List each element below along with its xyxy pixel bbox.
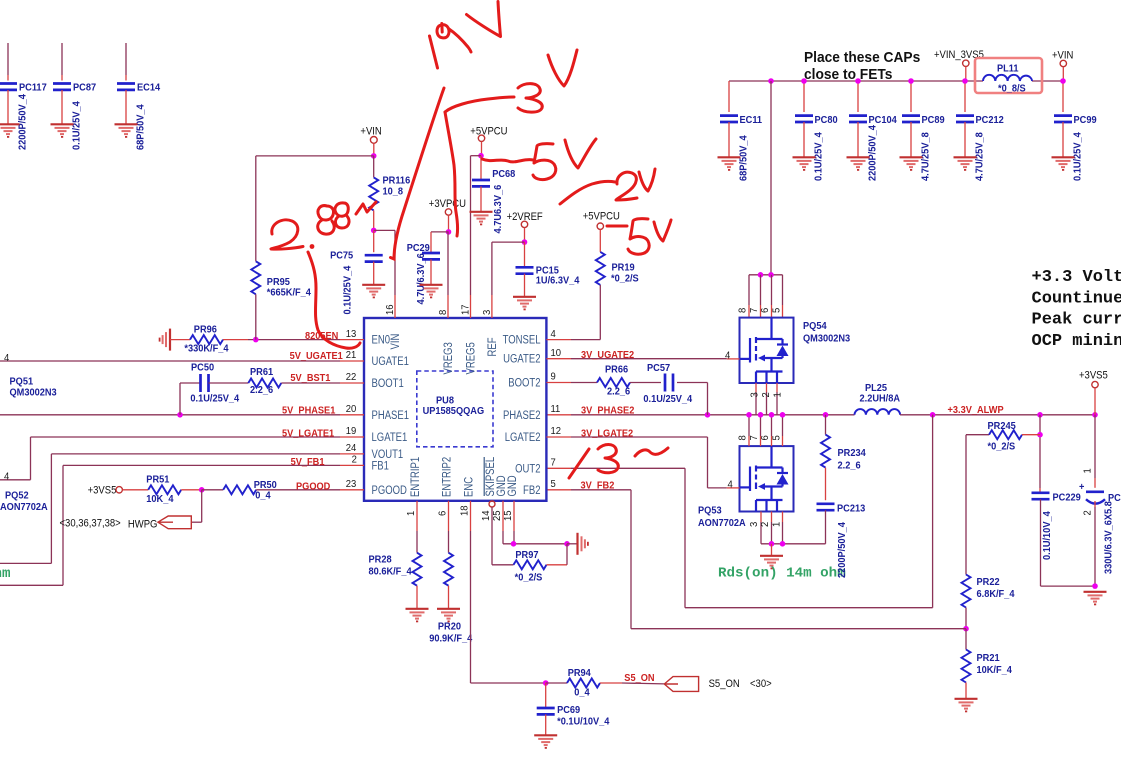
svg-text:VREG3: VREG3 bbox=[442, 342, 455, 374]
svg-text:0.1U/10V_4: 0.1U/10V_4 bbox=[1042, 511, 1054, 560]
svg-text:11: 11 bbox=[551, 404, 561, 415]
svg-text:QM3002N3: QM3002N3 bbox=[803, 333, 851, 345]
svg-text:4: 4 bbox=[4, 471, 10, 482]
capacitor PC104 bbox=[857, 81, 859, 112]
svg-text:5V_FB1: 5V_FB1 bbox=[291, 456, 325, 468]
svg-text:5: 5 bbox=[771, 307, 782, 313]
svg-text:4: 4 bbox=[551, 328, 557, 339]
svg-text:3V_LGATE2: 3V_LGATE2 bbox=[581, 428, 634, 440]
svg-text:OUT2: OUT2 bbox=[515, 462, 540, 475]
svg-text:6: 6 bbox=[760, 435, 771, 441]
svg-text:2: 2 bbox=[352, 454, 357, 465]
capacitor PC68 4.7U6.3V_6 bbox=[480, 156, 482, 180]
svg-text:10K/F_4: 10K/F_4 bbox=[977, 665, 1013, 677]
ground PC75 bbox=[362, 285, 385, 298]
wire ENC down to PR94 bbox=[470, 501, 472, 531]
svg-text:PR22: PR22 bbox=[977, 577, 1001, 589]
svg-text:*0_2/S: *0_2/S bbox=[611, 273, 639, 285]
svg-text:PHASE2: PHASE2 bbox=[503, 409, 541, 422]
ground right caps bbox=[1084, 592, 1107, 605]
svg-text:PR234: PR234 bbox=[838, 448, 867, 460]
svg-text:90.9K/F_4: 90.9K/F_4 bbox=[429, 633, 473, 645]
svg-text:22: 22 bbox=[346, 372, 357, 383]
handwritten annotation 19V bbox=[430, 2, 501, 69]
HWPG off-page connector bbox=[201, 490, 203, 522]
ground for EC14 bbox=[115, 124, 138, 137]
svg-text:Peak curr: Peak curr bbox=[1032, 311, 1121, 330]
PQ53 bottom pins 3 2 1 bbox=[760, 512, 762, 523]
capacitor PC75 0.1U/25V_4 bbox=[373, 230, 375, 252]
handwritten annotation 13~ at OUT2 bbox=[569, 445, 668, 479]
svg-text:1: 1 bbox=[771, 521, 782, 527]
resistor PR97 *0_2/S (SKIPSEL) bbox=[491, 507, 493, 565]
svg-text:<30>: <30> bbox=[750, 679, 772, 691]
svg-text:2: 2 bbox=[1082, 510, 1093, 515]
capacitor PC229 0.1U/10V_4 bbox=[1039, 488, 1041, 493]
svg-text:PC50: PC50 bbox=[191, 362, 215, 374]
svg-text:15: 15 bbox=[503, 510, 514, 521]
svg-text:10_8: 10_8 bbox=[383, 186, 404, 198]
svg-text:FB2: FB2 bbox=[523, 484, 540, 497]
svg-text:PR245: PR245 bbox=[988, 421, 1017, 433]
capacitor PC57 0.1U/25V_4 bbox=[665, 374, 673, 392]
svg-text:PC29: PC29 bbox=[407, 243, 431, 255]
svg-text:+3.3V_ALWP: +3.3V_ALWP bbox=[948, 405, 1005, 417]
ground PR28 bbox=[406, 609, 429, 622]
svg-text:FB1: FB1 bbox=[372, 459, 389, 472]
svg-text:ENC: ENC bbox=[462, 477, 475, 497]
junction on rail bbox=[769, 412, 775, 418]
svg-text:7: 7 bbox=[749, 308, 760, 313]
svg-text:7: 7 bbox=[551, 457, 556, 468]
svg-text:80.6K/F_4: 80.6K/F_4 bbox=[369, 566, 413, 578]
wire bus down to PQ54 bbox=[770, 81, 772, 275]
PQ53 pin 4 stub bbox=[727, 487, 740, 489]
svg-text:EC11: EC11 bbox=[740, 115, 763, 127]
svg-text:HWPG: HWPG bbox=[128, 519, 158, 531]
svg-text:PQ51: PQ51 bbox=[10, 376, 34, 388]
svg-text:4.7U/6.3V_6: 4.7U/6.3V_6 bbox=[416, 253, 428, 305]
resistor PR116 10_8 bbox=[373, 156, 375, 178]
junction bbox=[768, 78, 774, 84]
svg-text:PR20: PR20 bbox=[438, 621, 462, 633]
ground (horizontal) GND pins bbox=[578, 533, 588, 555]
ground for PC87 bbox=[51, 124, 74, 137]
junction FB2 / PR21 bbox=[963, 626, 969, 632]
svg-text:8: 8 bbox=[737, 435, 748, 441]
capacitor PC230 330U/6.3V_6X5.8 electrolytic bbox=[1086, 490, 1104, 493]
svg-text:1: 1 bbox=[1082, 468, 1093, 474]
svg-text:PC57: PC57 bbox=[647, 363, 671, 375]
svg-text:PL11: PL11 bbox=[997, 63, 1019, 75]
svg-text:5V_UGATE1: 5V_UGATE1 bbox=[290, 351, 344, 363]
svg-text:PR51: PR51 bbox=[146, 474, 170, 486]
capacitor EC14 bbox=[125, 43, 127, 75]
op-amp / controller U-PU8 UP1585QQAG box bbox=[364, 318, 546, 501]
inductor PL25 bbox=[855, 409, 901, 415]
junction PGOOD/HWPG bbox=[199, 487, 205, 493]
junction bbox=[962, 78, 968, 84]
resistor PR96 *330K/F_4 bbox=[170, 339, 190, 341]
svg-text:ENTRIP1: ENTRIP1 bbox=[409, 457, 422, 497]
svg-text:24: 24 bbox=[346, 443, 357, 454]
PQ54 pin 4 stub bbox=[727, 358, 740, 360]
svg-text:0.1U/25V_4: 0.1U/25V_4 bbox=[342, 265, 354, 314]
resistor PR50 0_4 bbox=[202, 489, 224, 491]
svg-text:PR19: PR19 bbox=[612, 262, 636, 274]
resistor PR28 80.6K/F_4 bbox=[416, 501, 418, 531]
svg-text:10K_4: 10K_4 bbox=[146, 494, 174, 506]
svg-text:68P/50V_4: 68P/50V_4 bbox=[135, 104, 147, 150]
svg-text:1: 1 bbox=[772, 392, 783, 398]
svg-text:25: 25 bbox=[492, 510, 503, 521]
junction EN0/PR95 bbox=[253, 337, 259, 343]
svg-text:PC87: PC87 bbox=[73, 82, 97, 94]
junction on rail bbox=[746, 412, 752, 418]
svg-text:4: 4 bbox=[728, 479, 734, 490]
svg-text:ohm: ohm bbox=[0, 566, 11, 582]
junction PC50/PHASE1 bbox=[177, 412, 183, 418]
svg-text:Place these CAPs: Place these CAPs bbox=[804, 49, 920, 65]
svg-text:REF: REF bbox=[486, 337, 499, 356]
svg-text:PC117: PC117 bbox=[19, 82, 47, 94]
junction on rail bbox=[1092, 412, 1098, 418]
svg-text:LGATE1: LGATE1 bbox=[372, 431, 408, 444]
svg-text:UP1585QQAG: UP1585QQAG bbox=[423, 405, 485, 417]
resistor PR20 90.9K/F_4 bbox=[448, 501, 450, 531]
wire FB1 loop bbox=[63, 464, 340, 466]
svg-text:*330K/F_4: *330K/F_4 bbox=[184, 343, 229, 355]
svg-text:+3.3 Volt: +3.3 Volt bbox=[1032, 268, 1121, 287]
svg-text:6: 6 bbox=[760, 307, 771, 313]
resistor PR22 6.8K/F_4 bbox=[965, 435, 967, 575]
wire 5V_BST1 / capacitor PC50 / resistor PR61 bbox=[179, 383, 181, 415]
svg-text:23: 23 bbox=[346, 479, 357, 490]
junction +3VPCU bbox=[446, 229, 452, 235]
wire rail to 330U cap bbox=[1094, 415, 1096, 478]
svg-text:UGATE2: UGATE2 bbox=[503, 353, 540, 366]
wire TONSEL bbox=[546, 339, 571, 341]
ground PC69 bbox=[534, 735, 557, 748]
svg-text:+5VPCU: +5VPCU bbox=[470, 126, 507, 138]
handwritten annotation 2V bbox=[560, 169, 655, 204]
svg-text:*0_2/S: *0_2/S bbox=[515, 572, 543, 584]
junction PR116/PC75 bbox=[371, 228, 377, 234]
svg-text:1U/6.3V_4: 1U/6.3V_4 bbox=[536, 275, 580, 287]
svg-text:*0.1U/10V_4: *0.1U/10V_4 bbox=[557, 716, 610, 728]
ground PR20 bbox=[437, 609, 460, 622]
svg-text:9: 9 bbox=[551, 371, 557, 382]
svg-text:PC99: PC99 bbox=[1074, 115, 1098, 127]
svg-text:PQ53: PQ53 bbox=[698, 505, 722, 517]
junction +VIN bbox=[371, 153, 377, 159]
junction on rail bbox=[780, 412, 786, 418]
svg-text:Countinue: Countinue bbox=[1032, 289, 1121, 308]
junction PR245 right bbox=[1037, 432, 1043, 438]
svg-text:PC75: PC75 bbox=[330, 250, 354, 262]
svg-text:OCP minin: OCP minin bbox=[1032, 332, 1121, 351]
svg-text:PR96: PR96 bbox=[194, 324, 218, 336]
svg-text:PC68: PC68 bbox=[492, 169, 516, 181]
ground for PC117 bbox=[0, 124, 20, 137]
junction +5VPCU bbox=[478, 153, 484, 159]
svg-text:BOOT1: BOOT1 bbox=[372, 377, 404, 390]
svg-text:PR28: PR28 bbox=[369, 554, 393, 566]
wire 5V_PHASE1 bbox=[0, 414, 340, 416]
svg-text:3: 3 bbox=[749, 392, 760, 398]
svg-text:4: 4 bbox=[725, 350, 731, 361]
svg-text:S5_ON: S5_ON bbox=[709, 679, 740, 691]
svg-text:6.8K/F_4: 6.8K/F_4 bbox=[977, 589, 1015, 601]
handwritten annotation 3V bbox=[445, 50, 577, 236]
ground for PC212 bbox=[954, 157, 977, 170]
svg-text:PC229: PC229 bbox=[1053, 492, 1082, 504]
svg-text:AON7702A: AON7702A bbox=[698, 518, 746, 530]
svg-text:0.1U/25V_4: 0.1U/25V_4 bbox=[643, 393, 692, 405]
wire BOOT2 / resistor PR66 2.2_6 bbox=[546, 382, 571, 384]
svg-text:GND: GND bbox=[506, 475, 519, 496]
transistor PQ53 AON7702A bbox=[740, 446, 794, 511]
svg-text:PC69: PC69 bbox=[557, 704, 581, 716]
svg-text:EC14: EC14 bbox=[137, 82, 161, 94]
svg-text:PR66: PR66 bbox=[605, 364, 629, 376]
svg-text:PR116: PR116 bbox=[383, 175, 411, 187]
svg-text:+3VS5: +3VS5 bbox=[88, 485, 117, 497]
svg-text:Rds(on) 14m ohm: Rds(on) 14m ohm bbox=[718, 566, 846, 582]
svg-text:PR21: PR21 bbox=[977, 653, 1001, 665]
wire +3.3V_ALWP rail (PHASE2) bbox=[546, 414, 571, 416]
transistor PQ54 QM3002N3 bbox=[740, 318, 794, 383]
capacitor PC117 bbox=[7, 43, 9, 75]
svg-text:*665K/F_4: *665K/F_4 bbox=[267, 287, 312, 299]
svg-text:14: 14 bbox=[481, 510, 492, 521]
S5_ON off-page connector bbox=[664, 677, 698, 692]
svg-text:+VIN: +VIN bbox=[360, 126, 381, 138]
SKIPSEL active-low bubble bbox=[489, 501, 495, 507]
ground PC29 bbox=[420, 285, 443, 298]
svg-text:5V_BST1: 5V_BST1 bbox=[290, 373, 330, 385]
wire 5V_LGATE1 bbox=[31, 436, 341, 438]
svg-text:2.2UH/8A: 2.2UH/8A bbox=[860, 393, 901, 405]
svg-text:PR94: PR94 bbox=[568, 668, 592, 680]
wire cap bottoms to ground bbox=[1041, 585, 1096, 587]
junction bbox=[801, 78, 807, 84]
svg-text:PC80: PC80 bbox=[815, 115, 839, 127]
svg-text:PHASE1: PHASE1 bbox=[372, 409, 410, 422]
svg-text:BOOT2: BOOT2 bbox=[508, 376, 540, 389]
svg-text:10: 10 bbox=[551, 348, 562, 359]
resistor PR234 2.2_6 bbox=[825, 415, 827, 435]
svg-text:5V_PHASE1: 5V_PHASE1 bbox=[282, 405, 336, 417]
svg-text:PC104: PC104 bbox=[869, 115, 898, 127]
junction bbox=[908, 78, 914, 84]
svg-text:13: 13 bbox=[346, 328, 357, 339]
svg-text:19: 19 bbox=[346, 426, 357, 437]
svg-text:TONSEL: TONSEL bbox=[503, 334, 541, 347]
junction on rail bbox=[930, 412, 936, 418]
capacitor PC212 bbox=[964, 81, 966, 112]
svg-text:QM3002N3: QM3002N3 bbox=[10, 387, 58, 399]
svg-text:3V_PHASE2: 3V_PHASE2 bbox=[581, 405, 635, 417]
ground for PC80 bbox=[793, 157, 816, 170]
capacitor PC69 *0.1U/10V_4 bbox=[545, 683, 547, 708]
wire to VIN pin16 bbox=[374, 229, 395, 231]
wire top input bus bbox=[729, 80, 983, 82]
resistor PR94 0_4 bbox=[546, 682, 567, 684]
svg-text:PC212: PC212 bbox=[976, 115, 1005, 127]
svg-text:LGATE2: LGATE2 bbox=[505, 431, 541, 444]
svg-text:4.7U6.3V_6: 4.7U6.3V_6 bbox=[493, 184, 505, 233]
svg-text:ENTRIP2: ENTRIP2 bbox=[440, 457, 453, 497]
svg-text:12: 12 bbox=[551, 426, 562, 437]
svg-text:*0_2/S: *0_2/S bbox=[988, 441, 1016, 453]
PQ53 top pins 8 7 6 5 bbox=[748, 415, 750, 436]
handwritten leader from 19V bbox=[391, 88, 445, 259]
svg-text:3V_FB2: 3V_FB2 bbox=[581, 480, 615, 492]
svg-text:+3VS5: +3VS5 bbox=[1079, 370, 1108, 382]
capacitor PC15 1U/6.3V_4 bbox=[524, 242, 526, 267]
svg-text:PQ54: PQ54 bbox=[803, 321, 827, 333]
ground PQ53 source bbox=[760, 556, 783, 569]
svg-text:21: 21 bbox=[346, 350, 357, 361]
svg-text:1: 1 bbox=[406, 510, 417, 516]
junction +2VREF bbox=[522, 239, 528, 245]
svg-text:PR97: PR97 bbox=[515, 550, 539, 562]
SKIPSEL overline bbox=[483, 457, 485, 496]
svg-text:PC213: PC213 bbox=[837, 503, 866, 515]
svg-text:VREG5: VREG5 bbox=[464, 342, 477, 374]
resistor PR245 *0_2/S bbox=[966, 434, 989, 436]
ground PC15 bbox=[513, 297, 536, 310]
svg-text:<30,36,37,38>: <30,36,37,38> bbox=[60, 518, 121, 530]
ground PR21 bbox=[955, 699, 978, 712]
svg-text:20: 20 bbox=[346, 404, 357, 415]
wire OUT2 loop bbox=[546, 467, 571, 469]
svg-text:5: 5 bbox=[551, 479, 557, 490]
svg-text:close to FETs: close to FETs bbox=[804, 66, 893, 82]
junction bbox=[855, 78, 861, 84]
svg-text:*0_8/S: *0_8/S bbox=[998, 83, 1026, 95]
svg-text:UGATE1: UGATE1 bbox=[372, 355, 409, 368]
ground for PC104 bbox=[847, 157, 870, 170]
svg-text:0.1U/25V_4: 0.1U/25V_4 bbox=[190, 393, 239, 405]
capacitor PC213 2200P/50V_4 bbox=[817, 504, 835, 510]
capacitor PC99 bbox=[1062, 81, 1064, 112]
capacitor PC29 4.7U/6.3V_6 bbox=[430, 232, 432, 253]
wire FB2 loop bbox=[546, 489, 571, 491]
svg-text:2200P/50V_4: 2200P/50V_4 bbox=[867, 125, 879, 181]
capacitor PC80 bbox=[803, 81, 805, 112]
svg-text:S5_ON: S5_ON bbox=[624, 673, 654, 685]
PQ54 bottom pins 3 2 1 bbox=[755, 383, 757, 392]
handwritten annotation 2.88 bbox=[271, 202, 376, 348]
svg-text:PR61: PR61 bbox=[250, 367, 274, 379]
ground for PC99 bbox=[1052, 157, 1075, 170]
resistor PR51 10K_4 bbox=[148, 485, 181, 494]
svg-text:2: 2 bbox=[761, 392, 772, 397]
junction PC69 bbox=[543, 680, 549, 686]
handwritten annotation 5V (left) bbox=[482, 139, 596, 180]
svg-text:PGOOD: PGOOD bbox=[296, 481, 330, 493]
wire PQ53 source to gnd / PC213 bbox=[761, 543, 826, 545]
capacitor EC11 bbox=[728, 81, 730, 112]
inductor PL11 bbox=[975, 58, 1042, 93]
junction on rail bbox=[705, 412, 711, 418]
ground PC68 bbox=[470, 212, 493, 225]
svg-text:8: 8 bbox=[737, 307, 748, 313]
svg-text:7: 7 bbox=[749, 435, 760, 440]
capacitor PC89 bbox=[910, 81, 912, 112]
svg-text:2.2_6: 2.2_6 bbox=[838, 460, 862, 472]
svg-text:6: 6 bbox=[437, 510, 448, 516]
svg-text:2200P/50V_4: 2200P/50V_4 bbox=[837, 522, 849, 578]
svg-text:AON7702A: AON7702A bbox=[0, 502, 48, 514]
svg-text:330U/6.3V_6X5.8: 330U/6.3V_6X5.8 bbox=[1103, 501, 1115, 574]
svg-text:0_4: 0_4 bbox=[574, 687, 590, 699]
svg-text:0_4: 0_4 bbox=[255, 490, 271, 502]
wire rail to PC229 bbox=[1039, 415, 1041, 488]
svg-text:2: 2 bbox=[760, 522, 771, 527]
svg-text:18: 18 bbox=[459, 505, 470, 516]
ground (horizontal) at PR96 bbox=[160, 329, 170, 351]
junction on rail bbox=[1037, 412, 1043, 418]
wire 5V_UGATE1 (net from PQ51) bbox=[0, 360, 340, 362]
junction bbox=[1060, 78, 1066, 84]
junction on rail bbox=[758, 412, 764, 418]
wire VOUT1 loop bbox=[51, 453, 340, 455]
wire 3V_UGATE2 bbox=[546, 358, 571, 360]
svg-text:2.2_6: 2.2_6 bbox=[250, 385, 274, 397]
svg-text:+5VPCU: +5VPCU bbox=[583, 211, 620, 223]
svg-text:3V_UGATE2: 3V_UGATE2 bbox=[581, 350, 635, 362]
wire 3V_LGATE2 bbox=[546, 436, 571, 438]
resistor PR21 10K/F_4 bbox=[965, 629, 967, 650]
svg-text:3: 3 bbox=[749, 521, 760, 527]
capacitor PC87 bbox=[61, 43, 63, 75]
svg-text:2.2_6: 2.2_6 bbox=[607, 386, 631, 398]
svg-text:EN0: EN0 bbox=[372, 334, 391, 347]
svg-text:PQ52: PQ52 bbox=[5, 490, 29, 502]
resistor PR95 *665K/F_4 bbox=[255, 156, 257, 261]
junction on rail bbox=[823, 412, 829, 418]
svg-text:VIN: VIN bbox=[389, 334, 402, 350]
svg-text:PC89: PC89 bbox=[922, 115, 946, 127]
handwritten annotation 5V (right) bbox=[607, 219, 671, 255]
svg-text:PGOOD: PGOOD bbox=[372, 484, 408, 497]
ground for EC11 bbox=[718, 157, 741, 170]
wire GND pins 25/15 bbox=[502, 501, 504, 531]
svg-text:4: 4 bbox=[4, 353, 10, 364]
ground for PC89 bbox=[900, 157, 923, 170]
resistor PR19 *0_2/S bbox=[596, 252, 605, 285]
svg-text:5V_LGATE1: 5V_LGATE1 bbox=[282, 428, 335, 440]
svg-text:5: 5 bbox=[771, 435, 782, 441]
svg-text:2200P/50V_4: 2200P/50V_4 bbox=[17, 94, 29, 150]
